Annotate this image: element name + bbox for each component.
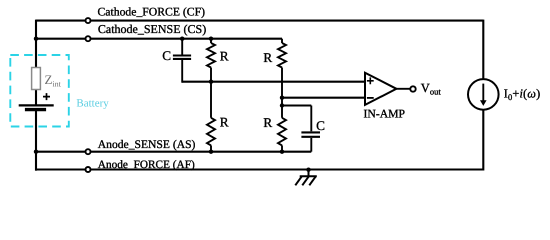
svg-text:Battery: Battery bbox=[76, 97, 109, 109]
svg-text:R: R bbox=[220, 48, 229, 63]
svg-text:Anode_SENSE (AS): Anode_SENSE (AS) bbox=[98, 138, 196, 151]
svg-text:Cathode_SENSE (CS): Cathode_SENSE (CS) bbox=[98, 22, 206, 36]
svg-text:R: R bbox=[220, 114, 229, 129]
svg-text:C: C bbox=[316, 118, 325, 133]
svg-text:Cathode_FORCE (CF): Cathode_FORCE (CF) bbox=[98, 5, 206, 18]
svg-text:R: R bbox=[263, 50, 272, 65]
svg-text:R: R bbox=[263, 115, 272, 130]
svg-text:C: C bbox=[162, 48, 171, 63]
svg-text:IN-AMP: IN-AMP bbox=[364, 107, 406, 120]
svg-text:Anode_FORCE (AF): Anode_FORCE (AF) bbox=[98, 159, 195, 171]
